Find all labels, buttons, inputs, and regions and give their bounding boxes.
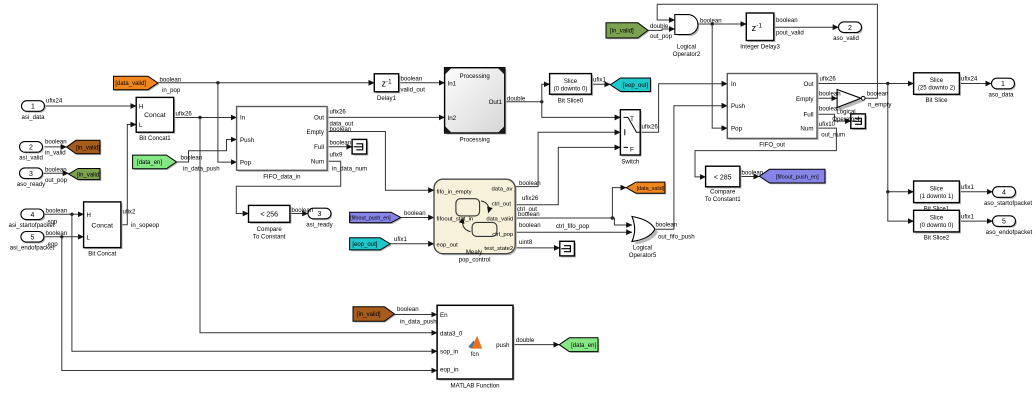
svg-text:fifoout_stat_in: fifoout_stat_in bbox=[437, 217, 474, 223]
svg-text:sop_in: sop_in bbox=[440, 348, 459, 355]
svg-text:[eop_out]: [eop_out] bbox=[352, 242, 377, 248]
svg-text:boolean: boolean bbox=[181, 155, 203, 162]
outport 2 aso_valid bbox=[840, 23, 863, 34]
svg-text:ufix10: ufix10 bbox=[819, 121, 836, 128]
svg-text:boolean: boolean bbox=[401, 76, 423, 83]
wire branch down to FIFO_out Pop bbox=[712, 24, 727, 128]
from tag fifoout_push_en purple bbox=[351, 214, 402, 225]
svg-text:boolean: boolean bbox=[404, 210, 426, 217]
block FIFO_out bbox=[729, 75, 819, 140]
wire data_av pop_control to Switch control input bbox=[515, 132, 620, 186]
svg-text:Push: Push bbox=[731, 103, 746, 110]
svg-text:Delay1: Delay1 bbox=[377, 95, 397, 102]
svg-text:Num: Num bbox=[800, 126, 813, 133]
gate Logical Operator5 OR bbox=[635, 219, 658, 244]
svg-text:Bit Slice: Bit Slice bbox=[925, 97, 948, 104]
terminator Terminator3 after FIFO_out Full bbox=[852, 116, 867, 131]
svg-text:ufix26: ufix26 bbox=[820, 76, 837, 83]
inport 5 asi_endofpacket bbox=[22, 233, 45, 244]
wire double Processing Out1 branch bbox=[505, 101, 542, 103]
svg-text:Pop: Pop bbox=[240, 159, 252, 166]
svg-text:Num: Num bbox=[311, 159, 324, 166]
svg-text:Full: Full bbox=[314, 144, 324, 151]
wire Switch out to FIFO_out In bbox=[640, 84, 727, 133]
svg-text:Slice: Slice bbox=[564, 78, 578, 85]
svg-text:Out: Out bbox=[314, 115, 324, 122]
node junction in_pop branch bbox=[216, 81, 219, 84]
wire FIFO_data_in Empty to pop_control fifo_in_empty bbox=[327, 132, 434, 191]
block Compare To Constant bbox=[250, 207, 291, 224]
svg-text:ufix24: ufix24 bbox=[961, 76, 978, 83]
goto tag eop_out cyan bbox=[612, 79, 652, 93]
svg-text:Push: Push bbox=[240, 137, 255, 144]
svg-text:boolean: boolean bbox=[518, 211, 540, 218]
terminator Terminator2 for test_state2 bbox=[561, 243, 576, 258]
svg-text:< 285: < 285 bbox=[714, 174, 732, 181]
svg-text:(0 downto 0): (0 downto 0) bbox=[920, 222, 954, 229]
svg-text:Out1: Out1 bbox=[489, 99, 503, 106]
svg-text:eop_out: eop_out bbox=[437, 242, 459, 248]
block Compare To Constant1 bbox=[707, 168, 741, 189]
outport 3 asi_ready bbox=[309, 210, 332, 221]
svg-text:< 256: < 256 bbox=[260, 211, 278, 218]
svg-text:test_state2: test_state2 bbox=[484, 246, 513, 252]
wire ufix24 Bit Slice to aso_data port bbox=[959, 83, 991, 85]
svg-text:out_pop: out_pop bbox=[45, 177, 68, 184]
svg-text:[data_valid]: [data_valid] bbox=[637, 186, 665, 192]
svg-text:ufix1: ufix1 bbox=[394, 236, 407, 243]
svg-text:ufix9: ufix9 bbox=[330, 152, 343, 159]
svg-text:3: 3 bbox=[29, 171, 33, 178]
from tag data_valid orange bbox=[115, 78, 160, 92]
svg-text:pop_control: pop_control bbox=[459, 257, 491, 264]
block Bit Slice0 bbox=[551, 75, 593, 96]
svg-text:[fifoout_push_en]: [fifoout_push_en] bbox=[776, 174, 819, 180]
block Bit Concat1 bbox=[138, 99, 176, 134]
outport 1 aso_data bbox=[993, 80, 1016, 91]
svg-text:Logical: Logical bbox=[677, 44, 696, 51]
svg-text:double: double bbox=[650, 23, 669, 30]
wire ufix1 Bit Slice2 to aso_endofpacket port bbox=[959, 220, 992, 222]
from tag in_valid olive green top bbox=[607, 24, 649, 39]
svg-text:data_av: data_av bbox=[492, 187, 513, 193]
block Bit Slice1 bbox=[915, 183, 961, 205]
svg-text:F: F bbox=[630, 147, 634, 154]
svg-text:Operator2: Operator2 bbox=[673, 51, 701, 58]
svg-text:out_pop: out_pop bbox=[650, 33, 673, 40]
svg-text:[fifoout_push_en]: [fifoout_push_en] bbox=[350, 216, 391, 222]
svg-text:Logical: Logical bbox=[633, 245, 652, 252]
outport 4 aso_startofpacket bbox=[994, 188, 1017, 199]
block Bit Slice2 bbox=[915, 212, 961, 234]
wire in_sopeop Bit Concat out to Bit Concat1 L bbox=[121, 125, 136, 225]
node junction data_valid branch bbox=[611, 216, 614, 219]
state rect 2 inside pop_control bbox=[472, 222, 497, 236]
from tag data_en light green bbox=[134, 156, 178, 170]
svg-text:4: 4 bbox=[30, 212, 34, 219]
wire double MATLAB Function push to Goto data_en bbox=[513, 344, 559, 346]
svg-text:(1 downto 1): (1 downto 1) bbox=[920, 193, 954, 200]
svg-text:ctrl_out: ctrl_out bbox=[492, 202, 512, 208]
wire boolean Logical Operator2 out to Integer Delay3 bbox=[698, 23, 746, 25]
inport 2 asi_valid bbox=[21, 143, 44, 154]
svg-text:(25 downto 2): (25 downto 2) bbox=[918, 85, 955, 92]
svg-text:Bit Concat1: Bit Concat1 bbox=[139, 135, 171, 142]
svg-text:Out: Out bbox=[804, 81, 814, 88]
svg-text:boolean: boolean bbox=[292, 207, 314, 214]
wire ufix1 Bit Slice1 to aso_startofpacket port bbox=[959, 191, 992, 193]
svg-text:Slice: Slice bbox=[930, 215, 944, 222]
svg-text:To Constant1: To Constant1 bbox=[705, 196, 742, 203]
svg-text:[in_valid]: [in_valid] bbox=[357, 312, 381, 318]
svg-text:valid_out: valid_out bbox=[401, 87, 426, 94]
svg-text:Bit Concat: Bit Concat bbox=[88, 251, 116, 258]
svg-text:Switch: Switch bbox=[621, 158, 639, 165]
goto tag in_valid brown bbox=[68, 142, 102, 156]
wire out_num FIFO_out Num to Compare To Constant1 bbox=[695, 128, 836, 177]
svg-text:H: H bbox=[87, 212, 91, 219]
svg-text:out_fifo_push: out_fifo_push bbox=[658, 234, 695, 241]
svg-text:boolean: boolean bbox=[700, 17, 722, 24]
svg-text:boolean: boolean bbox=[742, 169, 764, 176]
gate Logical Operator4 NOT bbox=[840, 93, 864, 111]
svg-text:in_sopeop: in_sopeop bbox=[131, 222, 160, 229]
svg-text:Compare: Compare bbox=[257, 226, 283, 233]
svg-text:boolean: boolean bbox=[819, 106, 841, 113]
wire pout_valid Integer Delay3 to aso_valid port bbox=[774, 26, 839, 28]
svg-text:ufix1: ufix1 bbox=[961, 184, 974, 191]
svg-text:Pop: Pop bbox=[731, 126, 743, 133]
wire branch up to Goto data_valid bbox=[612, 188, 626, 218]
svg-text:Operator4: Operator4 bbox=[832, 116, 860, 123]
svg-text:1: 1 bbox=[1001, 81, 1005, 88]
svg-text:boolean: boolean bbox=[776, 17, 798, 24]
goto tag data_en light green bottom bbox=[561, 339, 600, 353]
svg-text:FIFO_data_in: FIFO_data_in bbox=[263, 173, 300, 180]
wire branch down to Bit Slice2 bbox=[888, 192, 914, 221]
outport 5 aso_endofpacket bbox=[994, 217, 1017, 228]
wire asi_startofpacket to Bit Concat H bbox=[44, 213, 84, 215]
wire FIFO_out Empty to Logical Operator4 NOT bbox=[817, 97, 837, 99]
wire test_state2 pop_control to Terminator2 bbox=[515, 247, 560, 249]
wire asi_valid to Goto in_valid bbox=[45, 146, 67, 148]
wire aso_ready to Goto out_pop green bbox=[43, 172, 69, 174]
svg-text:Slice: Slice bbox=[930, 185, 944, 192]
svg-text:5: 5 bbox=[30, 234, 34, 241]
svg-text:5: 5 bbox=[1002, 219, 1006, 226]
block Integer Delay3 bbox=[748, 15, 776, 42]
wire sop branch down to MATLAB Function sop_in bbox=[72, 214, 437, 351]
svg-text:boolean: boolean bbox=[519, 222, 541, 229]
node junction eop branch bbox=[60, 235, 63, 238]
svg-text:ufix26: ufix26 bbox=[642, 124, 659, 131]
svg-text:Compare: Compare bbox=[710, 188, 736, 195]
svg-text:ufix26: ufix26 bbox=[522, 195, 539, 202]
svg-text:in_pop: in_pop bbox=[162, 87, 181, 94]
block Processing subsystem bbox=[446, 69, 506, 134]
node junction sop branch bbox=[70, 213, 73, 216]
svg-text:boolean: boolean bbox=[45, 166, 67, 173]
terminator Terminator after FIFO_data_in Full bbox=[354, 141, 369, 156]
svg-text:Full: Full bbox=[804, 112, 814, 119]
svg-text:aso_ready: aso_ready bbox=[17, 181, 46, 188]
svg-text:3: 3 bbox=[318, 211, 322, 218]
transition arrow state1 to state2 bbox=[481, 201, 489, 213]
wire n_empty NOT out feedback to Logical Operator2 top input bbox=[657, 4, 877, 98]
svg-text:4: 4 bbox=[1002, 190, 1006, 197]
svg-text:boolean: boolean bbox=[656, 222, 678, 229]
block Delay1 bbox=[376, 75, 400, 93]
svg-text:En: En bbox=[440, 312, 448, 319]
svg-text:double: double bbox=[516, 337, 535, 344]
wire in_data_push From in_valid to MATLAB Function En bbox=[395, 314, 438, 316]
svg-text:Concat: Concat bbox=[91, 222, 113, 229]
svg-text:boolean: boolean bbox=[867, 91, 889, 98]
svg-text:[data_en]: [data_en] bbox=[571, 343, 596, 349]
wire branch to Logical Operator5 top input bbox=[612, 218, 632, 225]
svg-text:ufix24: ufix24 bbox=[46, 98, 63, 105]
svg-text:ufix26: ufix26 bbox=[330, 109, 347, 116]
svg-text:boolean: boolean bbox=[519, 180, 541, 187]
svg-text:[data_en]: [data_en] bbox=[137, 160, 162, 166]
wire ufix1 Bit Slice0 to Goto eop_out bbox=[592, 83, 611, 85]
svg-text:pout_valid: pout_valid bbox=[776, 30, 804, 37]
wire From eop_out to pop_control eop_out input bbox=[390, 243, 434, 245]
svg-text:[data_valid]: [data_valid] bbox=[115, 81, 146, 87]
svg-text:2: 2 bbox=[29, 145, 33, 152]
svg-text:boolean: boolean bbox=[397, 306, 419, 313]
svg-text:double: double bbox=[507, 96, 526, 103]
wire boolean Compare To Constant1 to Goto fifoout_push_en bbox=[740, 176, 759, 178]
svg-text:asi_valid: asi_valid bbox=[19, 155, 43, 162]
goto tag out_pop olive green bbox=[70, 170, 102, 181]
wire From fifoout_push_en to pop_control fifoout_stat_in input bbox=[401, 217, 434, 219]
svg-text:sop: sop bbox=[48, 218, 58, 225]
wire data branch down to MATLAB Function data3_0 bbox=[200, 118, 437, 333]
svg-text:asi_data: asi_data bbox=[21, 114, 45, 121]
node junction sop slice branch bbox=[886, 190, 889, 193]
wire asi_data to Bit Concat1 H bbox=[45, 105, 137, 107]
wire Compare To Constant out to asi_ready port bbox=[290, 213, 308, 215]
svg-text:T: T bbox=[630, 116, 634, 123]
wire FIFO_out Full to Terminator3 bbox=[817, 114, 851, 121]
svg-text:in_data_push: in_data_push bbox=[400, 319, 437, 326]
svg-text:To Constant: To Constant bbox=[253, 233, 286, 240]
svg-text:in_data_push: in_data_push bbox=[183, 166, 220, 173]
wire in_pop branch down to FIFO_data_in Pop bbox=[218, 83, 237, 162]
wire out_fifo_push Logical Operator5 to FIFO_out Push bbox=[655, 106, 727, 230]
icon MATLAB logo membrane bbox=[468, 341, 476, 349]
from tag eop_out cyan left bbox=[351, 239, 392, 251]
svg-text:n_empty: n_empty bbox=[868, 102, 892, 109]
block Bit Concat bbox=[85, 204, 122, 250]
state rect 1 inside pop_control bbox=[456, 199, 480, 216]
svg-text:In2: In2 bbox=[448, 115, 457, 122]
svg-text:In1: In1 bbox=[448, 80, 457, 87]
svg-text:[in_valid]: [in_valid] bbox=[610, 29, 634, 35]
node junction processing out bbox=[540, 100, 543, 103]
svg-text:FIFO_out: FIFO_out bbox=[759, 141, 785, 148]
wire eop branch down to MATLAB Function eop_in bbox=[62, 237, 437, 371]
wire in_pop From data_valid to Delay1 bbox=[158, 82, 374, 84]
svg-text:uint8: uint8 bbox=[519, 239, 533, 246]
wire in_data_num FIFO_data_in Num to Compare To Constant bbox=[236, 161, 340, 213]
wire ufix26 Bit Concat1 out to FIFO_data_in In bbox=[174, 117, 237, 119]
svg-text:Bit Slice0: Bit Slice0 bbox=[558, 97, 584, 104]
svg-text:Mealy: Mealy bbox=[466, 249, 483, 256]
svg-text:in_data_num: in_data_num bbox=[332, 166, 367, 173]
svg-text:Integer Delay3: Integer Delay3 bbox=[740, 44, 780, 51]
svg-text:boolean: boolean bbox=[46, 207, 68, 214]
block Bit Slice bbox=[915, 74, 961, 96]
svg-text:ufix1: ufix1 bbox=[961, 213, 974, 220]
wire branch up to Bit Slice0 bbox=[542, 84, 550, 102]
wire data_valid pop_control out bbox=[515, 217, 612, 219]
block FIFO_data_in bbox=[238, 108, 329, 172]
svg-text:(0 downto 0): (0 downto 0) bbox=[554, 85, 588, 92]
node junction data branch bbox=[198, 116, 201, 119]
svg-text:boolean: boolean bbox=[160, 76, 182, 83]
svg-text:in_valid: in_valid bbox=[45, 150, 66, 157]
svg-text:Slice: Slice bbox=[930, 77, 944, 84]
svg-text:ufix2: ufix2 bbox=[123, 209, 136, 216]
wire in_data_push From data_en to FIFO_data_in Push bbox=[177, 140, 237, 163]
svg-text:boolean: boolean bbox=[330, 140, 352, 147]
svg-text:[in_valid]: [in_valid] bbox=[77, 172, 101, 178]
svg-text:ctrl_fifo_pop: ctrl_fifo_pop bbox=[556, 223, 590, 230]
svg-text:eop: eop bbox=[48, 241, 59, 248]
wire branch down to Bit Slice1 bbox=[888, 84, 914, 192]
wire From in_valid green to Logical Operator2 bottom input bbox=[648, 29, 675, 30]
svg-text:ufix1: ufix1 bbox=[593, 76, 606, 83]
svg-text:data3_0: data3_0 bbox=[440, 330, 463, 337]
svg-text:[eop_out]: [eop_out] bbox=[623, 83, 648, 89]
wire ctrl_out pop_control to Switch F input bbox=[515, 147, 620, 204]
svg-text:1: 1 bbox=[31, 104, 35, 111]
svg-text:fifo_in_empty: fifo_in_empty bbox=[437, 190, 472, 196]
svg-text:In: In bbox=[731, 81, 737, 88]
svg-text:aso_startofpacket: aso_startofpacket bbox=[984, 200, 1032, 207]
block Switch bbox=[622, 111, 642, 156]
svg-text:Operator5: Operator5 bbox=[629, 252, 657, 259]
chart pop_control Stateflow bbox=[436, 181, 517, 256]
svg-text:Empty: Empty bbox=[306, 129, 324, 136]
svg-text:In: In bbox=[240, 115, 246, 122]
svg-text:Empty: Empty bbox=[796, 96, 814, 103]
wire branch down to Switch T input bbox=[542, 102, 621, 118]
svg-text:fcn: fcn bbox=[471, 351, 479, 358]
node junction pop branch bbox=[711, 22, 714, 25]
svg-text:boolean: boolean bbox=[819, 91, 841, 98]
gate Logical Operator2 AND bbox=[678, 18, 699, 36]
from tag in_valid brown bottom bbox=[354, 308, 396, 322]
wire FIFO_data_in Full to Terminator bbox=[327, 146, 352, 148]
transition arrow state2 to state1 bbox=[463, 218, 471, 232]
svg-text:aso_valid: aso_valid bbox=[833, 35, 859, 42]
svg-text:boolean: boolean bbox=[45, 139, 67, 146]
svg-text:Concat: Concat bbox=[144, 112, 166, 119]
svg-text:asi_ready: asi_ready bbox=[306, 221, 333, 228]
inport 3 aso_ready bbox=[21, 169, 44, 180]
svg-text:aso_endofpacket: aso_endofpacket bbox=[986, 229, 1033, 236]
svg-text:out_num: out_num bbox=[821, 132, 845, 139]
svg-text:MATLAB Function: MATLAB Function bbox=[451, 383, 500, 390]
svg-text:boolean: boolean bbox=[330, 126, 352, 133]
goto tag fifoout_push_en purple right bbox=[761, 171, 827, 185]
svg-text:2: 2 bbox=[848, 25, 852, 32]
node junction out bus branch bbox=[886, 82, 889, 85]
inport 4 asi_startofpacket bbox=[22, 210, 45, 221]
wire data_out FIFO_data_in Out to Processing In2 bbox=[327, 116, 445, 118]
wire asi_endofpacket to Bit Concat L bbox=[44, 236, 84, 238]
svg-text:[in_valid]: [in_valid] bbox=[76, 145, 100, 151]
svg-text:Processing: Processing bbox=[460, 73, 490, 80]
svg-text:ufix26: ufix26 bbox=[176, 111, 193, 118]
wire ctrl_fifo_pop pop_control ctrl_pop to Logical Operator5 bottom input bbox=[515, 231, 632, 233]
svg-text:Bit Slice2: Bit Slice2 bbox=[924, 235, 950, 242]
svg-text:eop_in: eop_in bbox=[440, 367, 459, 374]
inport 1 asi_data bbox=[23, 102, 46, 113]
block MATLAB Function bbox=[439, 307, 515, 381]
svg-text:Processing: Processing bbox=[460, 137, 490, 144]
wire ufix26 FIFO_out Out to Bit Slice bbox=[817, 83, 914, 85]
wire valid_out Delay1 to Processing In1 bbox=[399, 82, 445, 84]
svg-text:boolean: boolean bbox=[46, 230, 68, 237]
goto tag data_valid orange right bbox=[628, 183, 667, 194]
svg-text:data_valid: data_valid bbox=[486, 217, 513, 223]
svg-text:push: push bbox=[496, 342, 510, 349]
svg-text:H: H bbox=[139, 104, 143, 111]
svg-text:aso_data: aso_data bbox=[988, 91, 1014, 98]
